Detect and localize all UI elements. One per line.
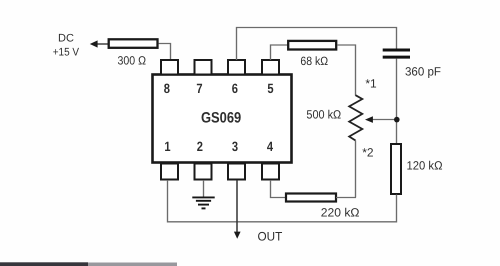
svg-text:*1: *1 (365, 77, 377, 91)
wire pin 6 up and across to capacitor (237, 28, 397, 61)
svg-text:3: 3 (232, 139, 239, 154)
IC U1 GS069 body (153, 75, 292, 163)
wire supply arrow to R 300 (90, 40, 108, 47)
pin 8 (161, 60, 178, 96)
bottom cropped border gray segment (88, 263, 177, 266)
pin 7 (195, 60, 212, 96)
svg-text:360 pF: 360 pF (405, 65, 441, 79)
svg-text:4: 4 (267, 139, 274, 154)
node DC +15V supply label (53, 33, 80, 59)
svg-text:+15 V: +15 V (53, 46, 80, 58)
wire pot bottom down to 220k wire (355, 141, 357, 198)
wire R120k bottom across to pin 1 (168, 180, 397, 222)
capacitor 360pF (383, 50, 441, 79)
pin 2 (195, 139, 212, 180)
wire R300 to pin 8 (159, 44, 171, 61)
wire R220k right to pot bottom line (336, 197, 356, 199)
pin 1 (161, 139, 178, 180)
svg-text:500 kΩ: 500 kΩ (306, 108, 341, 122)
svg-text:8: 8 (164, 81, 171, 96)
pin 6 (228, 60, 245, 96)
bottom cropped border dark segment (0, 262, 88, 266)
svg-text:120 kΩ: 120 kΩ (407, 159, 443, 173)
svg-text:6: 6 (232, 81, 239, 96)
potentiometer wiper arrow (365, 116, 397, 123)
resistor 120k ohm (391, 144, 443, 194)
resistor 220k ohm (286, 194, 360, 220)
svg-text:GS069: GS069 (201, 109, 241, 126)
resistor 68k ohm (288, 41, 336, 68)
svg-text:68 kΩ: 68 kΩ (300, 54, 328, 68)
wire pin 5 to R68k (271, 45, 289, 60)
svg-text:5: 5 (267, 81, 274, 96)
wire R68k to potentiometer top (337, 45, 356, 96)
potentiometer 500k zigzag (306, 95, 362, 140)
svg-text:300 Ω: 300 Ω (118, 54, 147, 68)
resistor 300 ohm with value label (109, 39, 158, 67)
ground (192, 197, 214, 208)
node junction dot (394, 117, 400, 123)
svg-text:2: 2 (197, 139, 203, 154)
svg-text:7: 7 (196, 81, 202, 96)
svg-text:OUT: OUT (258, 229, 283, 243)
wire pin 2 to ground (203, 180, 205, 197)
svg-text:*2: *2 (362, 145, 374, 159)
svg-text:220 kΩ: 220 kΩ (321, 206, 360, 220)
svg-text:DC: DC (58, 33, 74, 45)
wire pin 4 to R220k (271, 180, 287, 198)
pin 4 (262, 139, 279, 180)
pin 5 (262, 60, 279, 96)
pin 3 (228, 139, 245, 180)
wire pin 3 to OUT arrow (234, 180, 283, 243)
wire capacitor down through wiper node to R120k (396, 59, 398, 144)
svg-text:1: 1 (164, 139, 171, 154)
